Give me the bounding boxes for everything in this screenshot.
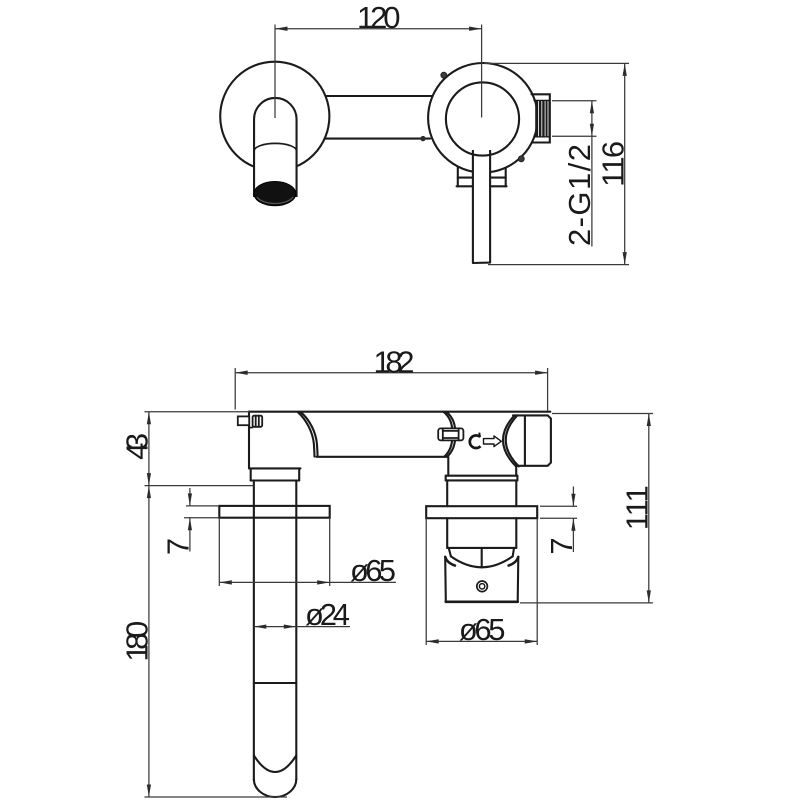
valve dome cap: [449, 548, 514, 568]
svg-text:111: 111: [620, 485, 655, 530]
dimension 180 (spout drop length): [120, 486, 287, 797]
svg-text:116: 116: [596, 141, 631, 187]
spout inner end arc: [254, 756, 296, 773]
dimension 182 (between mounting centres): [235, 344, 547, 410]
dimension 7 left flange thickness: [161, 488, 220, 555]
wire: connecting pipe between flanges: [322, 95, 436, 97]
right valve body neck flare: [446, 412, 455, 457]
dimension 43 (body depth): [120, 412, 255, 486]
svg-text:43: 43: [120, 433, 155, 460]
spout tube verticals (\u00f824): [253, 481, 255, 780]
svg-text:7: 7: [544, 537, 579, 554]
small tab screw bottom-right of right flange: [518, 156, 524, 162]
in-wall body tube top line: [249, 411, 550, 413]
dimension \u00f824 spout tube diameter: [254, 597, 350, 632]
right set screw: [438, 428, 463, 440]
svg-text:2-G1/2: 2-G1/2: [562, 144, 597, 246]
left spout body (side view): [249, 412, 318, 481]
dimension 120 (between centers): [275, 0, 482, 118]
left wall flange plate (side view): [219, 506, 329, 518]
right valve body: [446, 457, 518, 506]
spout joint line: [254, 682, 296, 684]
cartridge cap bulge: [503, 415, 516, 466]
skirt screw: [477, 581, 488, 592]
rotation indicator symbol: [470, 433, 502, 448]
handle skirt (side view): [445, 557, 518, 602]
right wall flange circle: [428, 63, 538, 173]
dimension 116 (flange top to handle end): [484, 63, 631, 264]
handle housing below right flange: [447, 518, 516, 548]
svg-text:ø65: ø65: [459, 612, 506, 647]
svg-text:180: 180: [120, 621, 155, 662]
spout (front view) with rounded top: [254, 98, 296, 196]
spout rounded end: [254, 779, 296, 797]
left mounting clip: [238, 416, 262, 428]
dimension 7 right flange thickness: [540, 487, 579, 555]
threaded outlet connector G1/2: [532, 94, 550, 142]
svg-text:ø65: ø65: [350, 553, 396, 588]
svg-text:120: 120: [357, 0, 401, 35]
pipe end dot marker: [420, 136, 425, 141]
right wall flange plate (side view): [426, 506, 537, 518]
handle lever (front view): [473, 150, 490, 263]
left wall flange (escutcheon) circle: [220, 62, 329, 171]
dimension \u00f865 left flange diameter: [219, 518, 396, 588]
inner circle of mixer valve: [446, 82, 519, 155]
valve body rect below right flange: [457, 167, 507, 187]
spout cylinder cap edge: [254, 143, 296, 151]
small tab screw top-left of right flange: [441, 72, 447, 78]
svg-text:ø24: ø24: [305, 597, 350, 632]
svg-text:182: 182: [374, 344, 415, 379]
spout outlet (aerator, dark ellipse): [254, 182, 296, 206]
dimension of thread length with leader: [552, 101, 597, 247]
cartridge end cap: [513, 415, 551, 465]
dimension 111 (handle assembly height): [520, 414, 655, 603]
svg-text:7: 7: [161, 538, 196, 555]
in-wall body tube bottom line: [317, 456, 448, 458]
dimension \u00f865 right flange diameter: [426, 518, 537, 647]
